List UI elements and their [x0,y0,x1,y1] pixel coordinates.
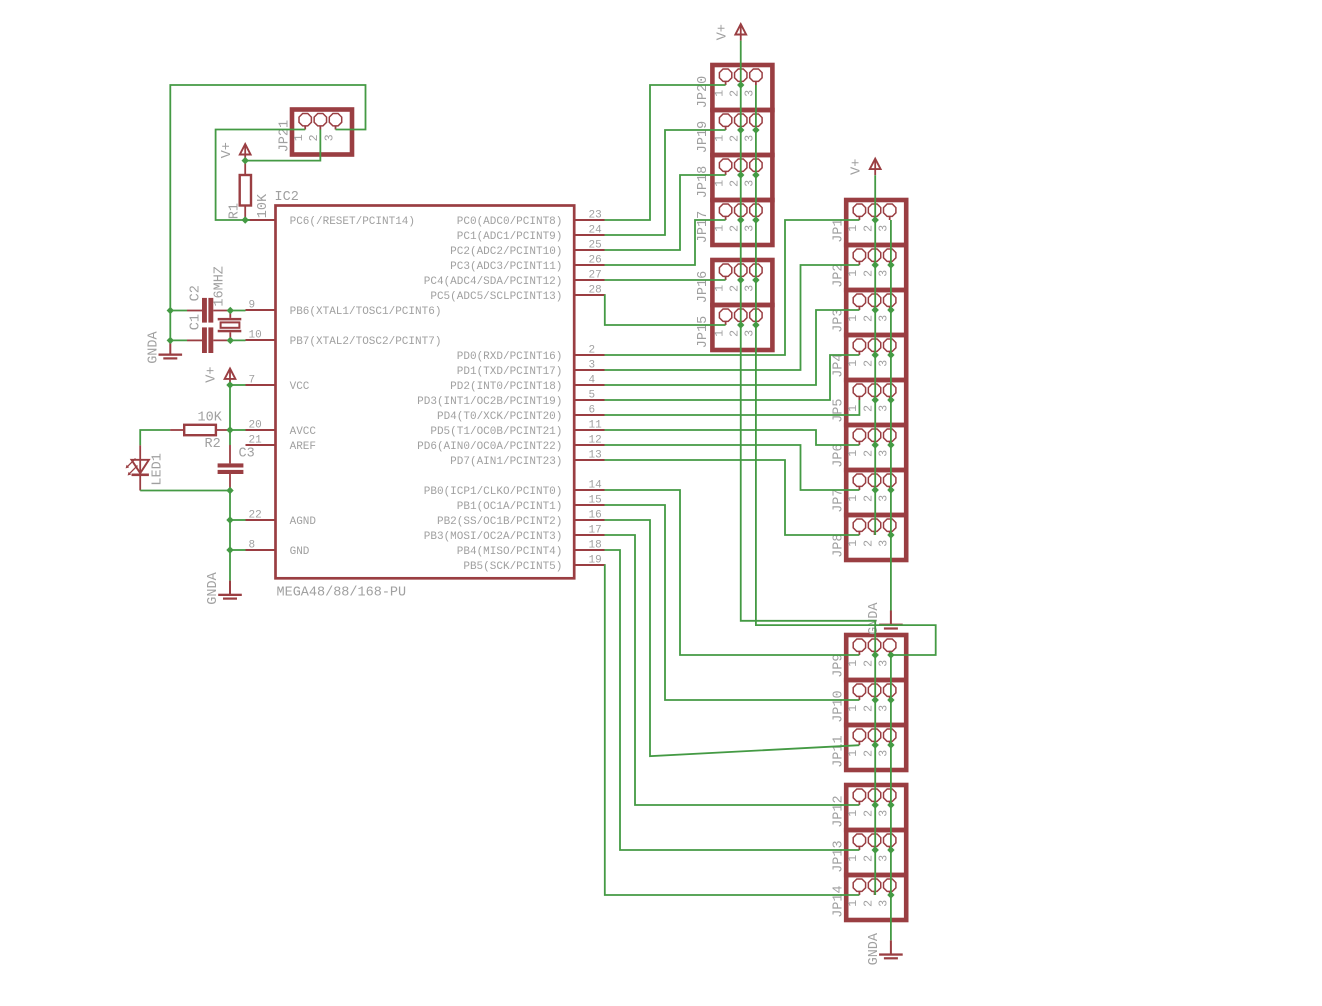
junction V+ bus JP1-7 pin2 y=355 [872,351,879,358]
label JP13 [832,840,847,872]
wire AGND down to GND [229,520,231,550]
connector JP1 [846,200,906,245]
IC2 right pin PB1(OC1A/PCINT1) stub [574,504,604,506]
wire PC5 to JP15 pin1 [605,295,726,325]
pin name PD1(TXD/PCINT17) [457,366,563,378]
IC2 left pin PB6(XTAL1/TOSC1/PCINT6) stub [246,309,276,311]
svg-text:10K: 10K [198,411,223,426]
svg-text:JP9: JP9 [832,653,847,677]
svg-text:10: 10 [249,330,262,342]
pin name PB1(OC1A/PCINT1) [457,501,563,513]
junction GNDA bus JP9-14 pin3 y=655 [887,651,894,658]
pin number 23 [589,210,602,222]
svg-text:V+: V+ [715,24,730,40]
label JP15 [696,316,711,348]
svg-text:VCC: VCC [290,381,310,393]
junction V+ bus left col y=130 [737,126,744,133]
pin name PD4(T0/XCK/PCINT20) [437,411,562,423]
svg-text:GNDA: GNDA [206,571,221,604]
wire GND node to stub [230,549,246,551]
svg-text:PB2(SS/OC1B/PCINT2): PB2(SS/OC1B/PCINT2) [437,516,562,528]
svg-text:JP3: JP3 [832,308,847,332]
junction V+ bus left col y=280 [737,276,744,283]
pin name AGND [290,516,317,528]
junction V+ bus left col y=220 [737,216,744,223]
svg-text:11: 11 [589,420,603,432]
connector JP11 [846,725,906,770]
pin name PD3(INT1/OC2B/PCINT19) [417,396,562,408]
pin number 14 [589,480,603,492]
connector JP5 [846,380,906,425]
svg-text:AGND: AGND [290,516,317,528]
svg-text:12: 12 [589,435,602,447]
label JP18 [696,166,711,198]
IC2 right pin PD1(TXD/PCINT17) stub [574,369,604,371]
svg-text:15: 15 [589,495,602,507]
label JP5 [832,398,847,422]
svg-text:PB1(OC1A/PCINT1): PB1(OC1A/PCINT1) [457,501,563,513]
junction V+ bus JP9-13 pin2 y=655 [872,651,879,658]
ground GNDA (crystal area) [159,340,183,359]
svg-text:PC0(ADC0/PCINT8): PC0(ADC0/PCINT8) [457,216,563,228]
IC2 right pin PD0(RXD/PCINT16) stub [574,354,604,356]
svg-text:27: 27 [589,270,602,282]
IC2 right pin PB4(MISO/PCINT4) stub [574,549,604,551]
connector JP19 [712,110,772,155]
pin number 18 [589,540,602,552]
svg-text:PD7(AIN1/PCINT23): PD7(AIN1/PCINT23) [450,456,562,468]
junction V+ bus JP1-7 pin2 y=265 [872,261,879,268]
svg-text:JP15: JP15 [696,316,711,348]
junction GNDA bus JP2-8 pin3 y=445 [887,441,894,448]
svg-text:10K: 10K [256,193,271,218]
junction V+ bus JP9-13 pin2 y=805 [872,801,879,808]
svg-text:13: 13 [589,450,602,462]
pin number 22 [249,510,262,522]
svg-text:PD1(TXD/PCINT17): PD1(TXD/PCINT17) [457,366,563,378]
svg-text:PC1(ADC1/PCINT9): PC1(ADC1/PCINT9) [457,231,563,243]
power symbol V+ (VCC) [225,369,236,386]
pin name VCC [290,381,310,393]
IC2 right pin PD4(T0/XCK/PCINT20) stub [574,414,604,416]
wire JP21 pin3 to GNDA (long top route) [170,85,365,311]
connector JP2 [846,245,906,290]
svg-text:PB5(SCK/PCINT5): PB5(SCK/PCINT5) [463,561,562,573]
wire C2 row to XTAL1 stub [170,310,245,312]
wire RESET net: junction to PC6 stub [245,219,250,221]
svg-text:20: 20 [249,420,262,432]
IC2 left pin AGND stub [246,519,276,521]
svg-text:21: 21 [249,435,263,447]
svg-text:V+: V+ [850,159,865,175]
svg-text:AREF: AREF [290,441,316,453]
wire PC0 to JP20 pin1 [605,85,726,220]
wire PD0 to JP1 pin1 [605,220,860,355]
wire GNDA bus bottom column (JP9-JP14 pin3) [890,655,892,940]
junction XTAL1 [227,307,234,314]
pin number 8 [249,540,256,552]
pin name PB4(MISO/PCINT4) [457,546,563,558]
svg-text:7: 7 [249,375,256,387]
wire PB0 to JP9 pin1 [605,490,860,655]
label JP6 [832,443,847,467]
op-amp: microcontroller IC2 body [276,206,575,579]
connector JP20 [712,65,772,110]
junction V+ bus left col y=175 [737,171,744,178]
connector JP9 [846,635,906,680]
crystal Q1 16MHZ [218,311,242,341]
wire PD6 to JP7 pin1 [605,445,860,490]
connector JP14 [846,875,906,920]
svg-text:28: 28 [589,285,602,297]
pin number 28 [589,285,602,297]
svg-text:PC2(ADC2/PCINT10): PC2(ADC2/PCINT10) [450,246,562,258]
svg-text:JP8: JP8 [832,533,847,557]
resistor R2 [170,425,230,435]
pin number 4 [589,375,596,387]
wire AVCC node to stub [230,429,246,431]
svg-text:PC6(/RESET/PCINT14): PC6(/RESET/PCINT14) [290,216,415,228]
junction AGND [226,516,233,523]
svg-text:16: 16 [589,510,602,522]
wire R2 left to LED1 top [140,430,170,445]
value label MEGA48/88/168-PU [277,586,407,601]
junction V+/R1 [242,157,249,164]
svg-text:25: 25 [589,240,602,252]
junction V+ bus left col y=325 [737,321,744,328]
svg-text:JP7: JP7 [832,488,847,512]
pin number 25 [589,240,602,252]
pin name PB7(XTAL2/TOSC2/PCINT7) [290,336,442,348]
IC2 right pin PB2(SS/OC1B/PCINT2) stub [574,519,604,521]
svg-text:PB0(ICP1/CLKO/PCINT0): PB0(ICP1/CLKO/PCINT0) [424,486,563,498]
pin name PB2(SS/OC1B/PCINT2) [437,516,562,528]
pin name PC3(ADC3/PCINT11) [450,261,562,273]
label C1 [189,314,204,330]
svg-text:PD6(AIN0/OC0A/PCINT22): PD6(AIN0/OC0A/PCINT22) [417,441,562,453]
svg-text:PC5(ADC5/SCLPCINT13): PC5(ADC5/SCLPCINT13) [430,291,562,303]
wire VCC node down to AVCC node [229,385,231,430]
svg-text:PD3(INT1/OC2B/PCINT19): PD3(INT1/OC2B/PCINT19) [417,396,562,408]
IC2 right pin PD7(AIN1/PCINT23) stub [574,459,604,461]
capacitor C2 [187,298,230,323]
svg-text:IC2: IC2 [275,190,299,205]
junction R1/PC6 [242,216,249,223]
ground GNDA (below JP8) [879,611,903,630]
svg-text:PB3(MOSI/OC2A/PCINT3): PB3(MOSI/OC2A/PCINT3) [424,531,563,543]
IC2 left pin AREF stub [246,444,276,446]
label C3 [239,446,255,461]
svg-text:PD5(T1/OC0B/PCINT21): PD5(T1/OC0B/PCINT21) [430,426,562,438]
pin name PC0(ADC0/PCINT8) [457,216,563,228]
svg-text:18: 18 [589,540,602,552]
pin number 16 [589,510,602,522]
wire C3 node down to AGND [229,491,231,521]
svg-text:V+: V+ [220,142,235,158]
junction C1 left [167,337,174,344]
svg-text:JP4: JP4 [832,353,847,377]
svg-text:PC3(ADC3/PCINT11): PC3(ADC3/PCINT11) [450,261,562,273]
svg-text:14: 14 [589,480,603,492]
junction V+ bus JP9-13 pin2 y=745 [872,741,879,748]
svg-text:PB6(XTAL1/TOSC1/PCINT6): PB6(XTAL1/TOSC1/PCINT6) [290,306,442,318]
connector JP17 [712,200,772,245]
pin name PD5(T1/OC0B/PCINT21) [430,426,562,438]
svg-text:JP12: JP12 [832,795,847,827]
wire PD5 to JP6 pin1 [605,430,860,445]
wire PB2 to JP11 pin1 [605,520,860,756]
wire PB4 to JP13 pin1 [605,550,860,850]
label GNDA (below GND pin) [206,571,221,604]
pin name PB3(MOSI/OC2A/PCINT3) [424,531,563,543]
svg-text:JP16: JP16 [696,271,711,303]
svg-text:2: 2 [589,345,596,357]
label JP10 [832,690,847,722]
wire AVCC node down to C3 [229,430,231,445]
pin name GND [290,546,310,558]
capacitor C3 [218,445,244,491]
label GNDA (below JP14) [867,932,882,965]
label V+ (VCC) [205,366,220,382]
connector JP8 [846,515,906,560]
wire RESET net: JP21 pin1 to R1/PC6 [216,130,306,221]
wire GNDA bus left column (JP20-JP15 pin3) routed to JP9 pin3 [756,85,936,655]
label JP20 [696,76,711,108]
pin number 10 [249,330,262,342]
junction V+ bus JP9-13 pin2 y=850 [872,846,879,853]
pin name AREF [290,441,316,453]
wire PC3 to JP17 pin1 [605,220,726,265]
IC2 left pin PC6(/RESET/PCINT14) stub [246,219,276,221]
junction GNDA bus JP2-8 pin3 y=490 [887,486,894,493]
svg-text:8: 8 [249,540,256,552]
svg-text:17: 17 [589,525,602,537]
svg-text:JP21: JP21 [278,120,293,152]
wire PD4 to JP5 pin1 [605,400,860,415]
svg-text:PB7(XTAL2/TOSC2/PCINT7): PB7(XTAL2/TOSC2/PCINT7) [290,336,442,348]
pin number 12 [589,435,602,447]
label JP1 [832,218,847,242]
value 10K (R2) [198,411,223,426]
svg-text:PD4(T0/XCK/PCINT20): PD4(T0/XCK/PCINT20) [437,411,562,423]
wire PD1 to JP2 pin1 [605,265,860,370]
capacitor C1 [187,327,230,353]
power symbol V+ (above JP1) [870,159,881,176]
svg-text:GNDA: GNDA [146,330,161,363]
svg-text:C3: C3 [239,446,255,461]
label R1 [228,203,243,219]
wire PB5 to JP14 pin1 [605,565,860,895]
pin name PD2(INT0/PCINT18) [450,381,562,393]
junction V+ bus left col y=85 [737,81,744,88]
IC2 right pin PC4(ADC4/SDA/PCINT12) stub [574,279,604,281]
junction V+ bus JP1-7 pin2 y=445 [872,441,879,448]
pin number 5 [589,390,596,402]
label V+ (above R1) [220,142,235,158]
junction V+ bus JP1-7 pin2 y=400 [872,396,879,403]
pin number 3 [589,360,596,372]
connector JP6 [846,425,906,470]
svg-text:V+: V+ [205,366,220,382]
label JP8 [832,533,847,557]
svg-text:JP17: JP17 [696,211,711,243]
IC2 right pin PC3(ADC3/PCINT11) stub [574,264,604,266]
junction GNDA bus JP9-14 pin3 y=850 [887,846,894,853]
wire C2 left to C1 left [169,311,171,341]
junction C3/LED1 [226,487,233,494]
junction GNDA bus JP2-8 pin3 y=265 [887,261,894,268]
pin number 20 [249,420,262,432]
pin number 6 [589,405,596,417]
svg-text:JP1: JP1 [832,218,847,242]
resistor R1 [240,161,251,220]
IC2 right pin PD3(INT1/OC2B/PCINT19) stub [574,399,604,401]
connector JP7 [846,470,906,515]
connector JP16 [712,260,772,305]
svg-text:PB4(MISO/PCINT4): PB4(MISO/PCINT4) [457,546,563,558]
junction GNDA bus JP9-14 pin3 y=745 [887,741,894,748]
pin name PC4(ADC4/SDA/PCINT12) [424,276,563,288]
pin number 19 [589,555,602,567]
svg-text:C1: C1 [189,314,204,330]
label JP14 [832,885,847,917]
label JP3 [832,308,847,332]
label JP19 [696,121,711,153]
svg-text:JP20: JP20 [696,76,711,108]
svg-text:5: 5 [589,390,596,402]
pin name PB6(XTAL1/TOSC1/PCINT6) [290,306,442,318]
svg-text:3: 3 [589,360,596,372]
IC2 left pin AVCC stub [246,429,276,431]
IC2 right pin PC5(ADC5/SCLPCINT13) stub [574,294,604,296]
pin name PC2(ADC2/PCINT10) [450,246,562,258]
wire GND node down to GNDA symbol [229,550,231,581]
svg-text:24: 24 [589,225,603,237]
junction GND [226,546,233,553]
wire GNDA bus right column (JP1-JP8 pin3) [890,220,892,611]
wire PD3 to JP4 pin1 [605,355,860,400]
IC2 right pin PB0(ICP1/CLKO/PCINT0) stub [574,489,604,491]
wire LED1 bottom to C3 bottom node [140,490,230,492]
wire AGND node to stub [230,519,246,521]
junction AVCC/R2 [226,426,233,433]
svg-text:23: 23 [589,210,602,222]
junction GNDA bus left col y=280 [752,276,759,283]
label JP11 [832,735,847,767]
junction GNDA bus JP2-8 pin3 y=400 [887,396,894,403]
connector JP21 [292,110,352,155]
label GNDA (below JP8) [867,602,882,635]
wire PD7 to JP8 pin1 [605,460,860,535]
IC2 right pin PD5(T1/OC0B/PCINT21) stub [574,429,604,431]
wire V+ to JP21 pin2 [245,130,320,161]
junction GNDA bus left col y=325 [752,321,759,328]
pin number 15 [589,495,602,507]
svg-text:4: 4 [589,375,596,387]
label IC2 [275,190,299,205]
label JP21 [278,120,293,152]
pin number 27 [589,270,602,282]
wire PC4 to JP16 pin1 [605,279,726,281]
wire V+ to VCC stub [230,384,246,386]
junction GNDA bus JP2-8 pin3 y=355 [887,351,894,358]
label JP17 [696,211,711,243]
svg-text:LED1: LED1 [150,453,165,485]
pin name AVCC [290,426,317,438]
label JP2 [832,263,847,287]
svg-text:9: 9 [249,300,256,312]
junction GNDA bus JP9-14 pin3 y=700 [887,696,894,703]
IC2 right pin PC0(ADC0/PCINT8) stub [574,219,604,221]
connector JP12 [846,785,906,830]
label JP4 [832,353,847,377]
connector JP10 [846,680,906,725]
label JP7 [832,488,847,512]
pin number 11 [589,420,603,432]
label V+ (above JP1) [850,159,865,175]
svg-text:JP14: JP14 [832,885,847,917]
IC2 right pin PB5(SCK/PCINT5) stub [574,564,604,566]
IC2 right pin PD2(INT0/PCINT18) stub [574,384,604,386]
svg-text:19: 19 [589,555,602,567]
IC2 right pin PD6(AIN0/OC0A/PCINT22) stub [574,444,604,446]
wire PD2 to JP3 pin1 [605,310,860,385]
IC2 right pin PC1(ADC1/PCINT9) stub [574,234,604,236]
svg-text:GND: GND [290,546,310,558]
label V+ (above JP20) [715,24,730,40]
connector JP15 [712,305,772,350]
junction XTAL2 [227,337,234,344]
wire PC2 to JP18 pin1 [605,175,726,250]
svg-text:JP19: JP19 [696,121,711,153]
ground GNDA (below JP14) [879,940,903,959]
connector JP3 [846,290,906,335]
svg-text:AVCC: AVCC [290,426,317,438]
junction VCC [226,381,233,388]
wire PB1 to JP10 pin1 [605,505,860,700]
junction GNDA bus JP2-8 pin3 y=535 [887,531,894,538]
svg-text:JP10: JP10 [832,690,847,722]
svg-text:22: 22 [249,510,262,522]
svg-text:JP2: JP2 [832,263,847,287]
label GNDA (crystal area) [146,330,161,363]
label JP9 [832,653,847,677]
pin name PD0(RXD/PCINT16) [457,351,563,363]
pin number 13 [589,450,602,462]
pin number 24 [589,225,603,237]
svg-text:C2: C2 [189,285,204,301]
ground GNDA (below GND pin) [218,581,242,600]
power symbol V+ (above JP20) [735,24,746,41]
junction C2 left [167,307,174,314]
junction GNDA bus left col y=220 [752,216,759,223]
label R2 [205,437,221,452]
value 16MHZ [213,266,228,307]
junction GNDA bus JP9-14 pin3 y=895 [887,891,894,898]
svg-text:R1: R1 [228,203,243,219]
pin number 17 [589,525,602,537]
svg-text:R2: R2 [205,437,221,452]
wire PC1 to JP19 pin1 [605,130,726,235]
wire V+ bus left column (JP20-JP15 pin2) down to JP9-JP14 pin2 [741,41,875,895]
pin number 21 [249,435,263,447]
label C2 [189,285,204,301]
junction GNDA bus left col y=130 [752,126,759,133]
connector JP4 [846,335,906,380]
wire V+ bus right column (JP1-JP8 pin2) [874,175,876,535]
junction GNDA bus left col y=175 [752,171,759,178]
svg-text:JP11: JP11 [832,735,847,767]
